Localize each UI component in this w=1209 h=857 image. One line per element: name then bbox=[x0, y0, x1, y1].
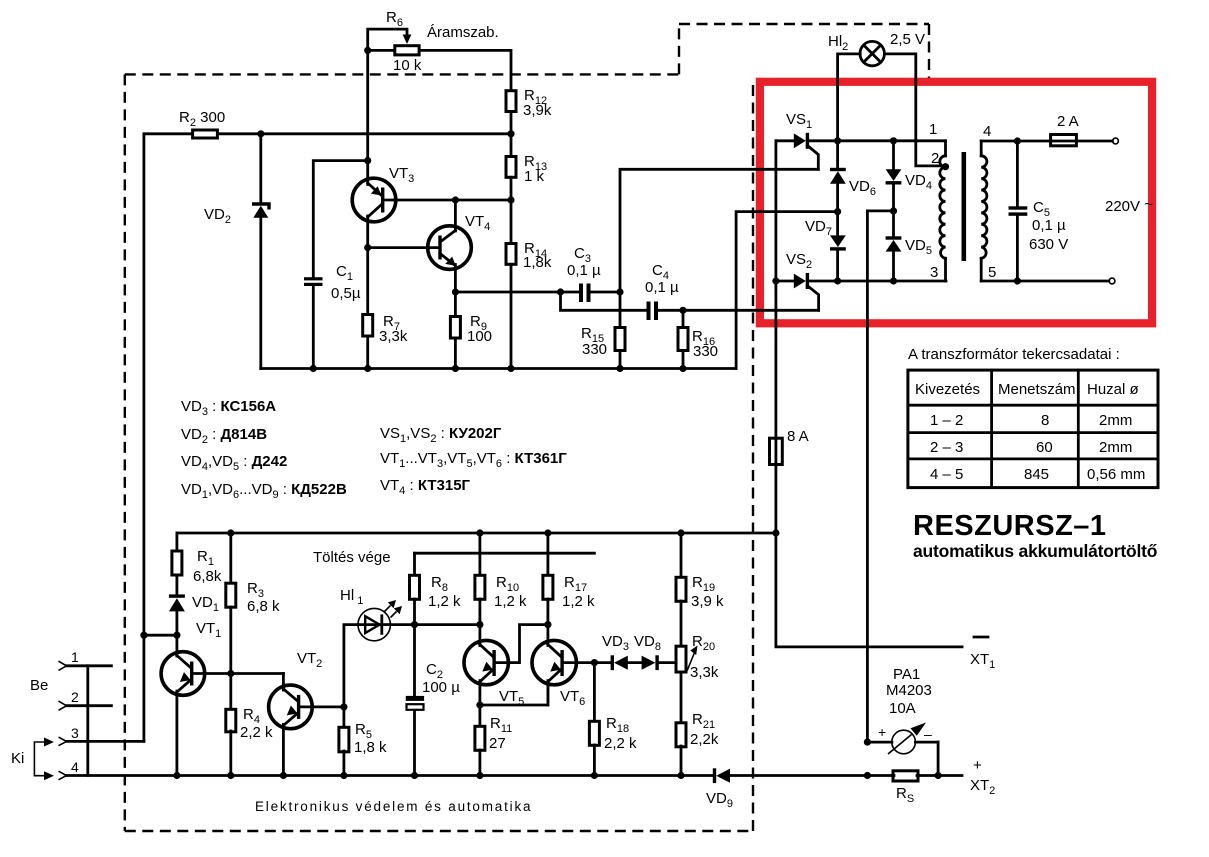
wire: R20 to R21 bbox=[680, 672, 683, 723]
wire: VD5 to pin3 line bbox=[892, 252, 895, 281]
wire: pin 1 stub bbox=[67, 664, 112, 667]
wire: R5 to rail bbox=[342, 751, 345, 776]
wire: R18 column bbox=[593, 663, 596, 721]
svg-text:2 A: 2 A bbox=[1057, 113, 1079, 130]
svg-text:automatikus akkumulátortöltő: automatikus akkumulátortöltő bbox=[913, 541, 1157, 561]
connector bus bar bbox=[86, 666, 89, 776]
svg-text:2,2 k: 2,2 k bbox=[604, 735, 637, 752]
wire: VD8 to R20 bbox=[659, 661, 676, 664]
transistor VT1 (PNP) bbox=[161, 620, 221, 776]
node: VT2 emitter on rail bbox=[280, 772, 287, 779]
transformer core bbox=[962, 152, 967, 261]
node: left drop line tap bbox=[140, 632, 147, 639]
wire: R17 column from rail bbox=[547, 533, 550, 575]
wire: VD2 to bottom rail left corner bbox=[259, 218, 262, 369]
wire: VD6 to VD7 bbox=[836, 184, 839, 236]
resistor R15 330 bbox=[581, 325, 625, 358]
transistor VT6 (PNP) bbox=[532, 625, 585, 708]
transistor VT2 (PNP) bbox=[269, 650, 323, 776]
svg-text:Elektronikus védelem és aut: Elektronikus védelem és automatika bbox=[255, 799, 532, 814]
wire: R5 column bbox=[342, 707, 345, 727]
svg-text:PA1: PA1 bbox=[893, 666, 920, 683]
connector: Be pin 2 chevron bbox=[59, 701, 67, 710]
wire: pin5 line to mains terminal bbox=[981, 280, 1109, 283]
resistor R1 6,8k bbox=[172, 548, 222, 585]
wire: VS2 anode lead bbox=[776, 280, 794, 283]
arrowhead of R6 wiper bbox=[403, 35, 412, 45]
wire: R10 to VT5 collector node bbox=[478, 599, 481, 625]
node: C3 left junction bbox=[557, 288, 564, 295]
svg-text:60: 60 bbox=[1036, 439, 1053, 456]
diode VD5 bbox=[886, 236, 932, 257]
resistor R19 3,9k bbox=[676, 574, 724, 610]
resistor R14 1,8k bbox=[506, 240, 552, 271]
node: junction at R6 left bbox=[364, 47, 371, 54]
wire: R17 to VT6 collector node bbox=[547, 599, 550, 625]
svg-text:1,8 k: 1,8 k bbox=[354, 739, 387, 756]
svg-text:0,1 µ: 0,1 µ bbox=[645, 279, 679, 296]
wire: C2 column bbox=[413, 625, 416, 696]
lamp HL2 2,5V bbox=[828, 31, 925, 66]
capacitor C5 0,1u 630V bbox=[1009, 141, 1069, 281]
wire: fuse to mains terminal bbox=[1076, 140, 1112, 143]
svg-text:1,8k: 1,8k bbox=[523, 254, 552, 271]
wire: R6 right lead to R12 column bbox=[421, 50, 511, 89]
svg-text:Huzal ø: Huzal ø bbox=[1087, 381, 1139, 398]
svg-text:A transzformátor tekercsadatai: A transzformátor tekercsadatai : bbox=[908, 346, 1120, 363]
transistor VT4 (NPN) bbox=[428, 200, 491, 292]
diode VD8 bbox=[634, 633, 661, 670]
wire: VT3 base lead to R13/R14 junction bbox=[384, 199, 512, 202]
component list: left column bbox=[181, 398, 347, 501]
wire: jog from C3 node down to C4 line bbox=[561, 292, 647, 310]
wire: R19 column from rail bbox=[680, 533, 683, 577]
connector: Be pin 1 chevron bbox=[59, 661, 67, 670]
bottom rail of control section bbox=[66, 774, 713, 777]
node: VD7 bottom bbox=[834, 277, 841, 284]
potentiometer R6 10k bbox=[395, 46, 419, 55]
capacitor C4 0,1u bbox=[645, 262, 679, 320]
node: meter left tap bbox=[864, 739, 871, 746]
transformer T1 secondary winding bbox=[981, 141, 987, 281]
svg-text:+: + bbox=[878, 724, 886, 740]
diode VD1 bbox=[169, 594, 219, 614]
svg-text:220V ~: 220V ~ bbox=[1105, 196, 1153, 215]
svg-text:M4203: M4203 bbox=[886, 682, 932, 699]
svg-text:8: 8 bbox=[1041, 412, 1049, 429]
svg-text:6,8 k: 6,8 k bbox=[247, 598, 280, 615]
resistor R16 330 bbox=[678, 328, 718, 361]
node: R17 top bbox=[544, 529, 551, 536]
wire: R6 top loop from left junction to wiper arrow bbox=[368, 29, 407, 50]
capacitor C1 0,5u bbox=[304, 263, 361, 302]
wire: rail corner up to VD6/VD7 midpoint bbox=[736, 212, 838, 369]
wire: R10 column from rail bbox=[478, 533, 481, 575]
resistor R5 1,8k bbox=[339, 721, 387, 756]
node: battery wire meets rail bbox=[864, 772, 871, 779]
node: R16 top bbox=[679, 307, 686, 314]
capacitor C3 0,1u bbox=[567, 245, 601, 302]
LED HL1 bbox=[340, 587, 402, 641]
node: R10 top bbox=[476, 529, 483, 536]
node: R9 on rail bbox=[452, 365, 459, 372]
wire: R4 to rail bbox=[229, 731, 232, 776]
node: R4 on rail bbox=[227, 772, 234, 779]
node: VD4/VD5 midpoint bbox=[890, 207, 897, 214]
svg-text:4: 4 bbox=[71, 759, 79, 775]
resistor R12 3,9k bbox=[506, 87, 552, 119]
resistor R9 100 bbox=[450, 313, 492, 345]
node: meter right tap on rail bbox=[935, 772, 942, 779]
svg-text:2 – 3: 2 – 3 bbox=[930, 439, 963, 456]
svg-text:0,1 µ: 0,1 µ bbox=[1032, 217, 1066, 234]
resistor R8 1,2k bbox=[410, 574, 462, 610]
resistor R2 300 bbox=[179, 109, 225, 138]
wire: VD1 to VT1 collector node bbox=[175, 611, 178, 656]
wire: VT4 base lead bbox=[368, 246, 439, 249]
transistor VT3 (PNP) bbox=[352, 165, 414, 248]
svg-text:Ki: Ki bbox=[11, 750, 24, 767]
node: R17/VT6-collector/VT5-base junction bbox=[544, 621, 551, 628]
diode VD7 bbox=[805, 218, 846, 251]
wire: R6 left lead bbox=[368, 49, 394, 52]
wire: R21 to rail bbox=[680, 746, 683, 776]
svg-text:6,8k: 6,8k bbox=[193, 568, 222, 585]
node: R18 on rail bbox=[591, 772, 598, 779]
svg-text:Áramszab.: Áramszab. bbox=[427, 24, 499, 41]
node: R11 on rail bbox=[476, 772, 483, 779]
wire: VD7 to VS2 cathode line bbox=[836, 251, 839, 281]
node: R3/R4/VT1 base junction bbox=[227, 670, 234, 677]
wire: C3 right to its node bbox=[591, 291, 621, 294]
node: C1 on rail bbox=[310, 365, 317, 372]
wire: VT5 base cross-coupling to R17 bottom bbox=[495, 625, 548, 663]
svg-text:4: 4 bbox=[983, 123, 991, 140]
wire: VT3 collector down to R7 bbox=[366, 248, 369, 314]
node: VD2 tap on R2 line bbox=[257, 130, 264, 137]
fuse 2A bbox=[1051, 113, 1079, 146]
fuse 8A bbox=[770, 428, 809, 465]
svg-text:2: 2 bbox=[71, 689, 79, 705]
svg-text:0,56 mm: 0,56 mm bbox=[1087, 466, 1145, 483]
wire: R12 to R13 bbox=[510, 112, 513, 157]
node: VT3 collector / VT4 base bbox=[364, 244, 371, 251]
wire: rail from VD9 to XT2 bbox=[730, 774, 894, 777]
wire: R9 column bbox=[454, 292, 457, 316]
wire: thyristor anode column VS1/VS2 down to 8A fuse bbox=[775, 141, 778, 439]
wire: R1 column from rail bbox=[175, 533, 178, 551]
diode VD4 bbox=[886, 169, 932, 192]
node: R14 on rail bbox=[507, 365, 514, 372]
svg-text:3,3k: 3,3k bbox=[690, 664, 719, 681]
node: C1 tap bbox=[364, 157, 371, 164]
wire: R8 to LED node bbox=[413, 599, 416, 625]
svg-text:100: 100 bbox=[467, 328, 492, 345]
resistor R13 1k bbox=[506, 153, 547, 185]
wire: pin 2 stub bbox=[67, 704, 112, 707]
node: VT2 base / R5 / HL1 junction bbox=[340, 703, 347, 710]
wire: 8A fuse down to XT1 bbox=[776, 439, 962, 647]
wire: HL1 riser from R5 node bbox=[344, 625, 358, 707]
node: VS2 anode junction bbox=[772, 277, 779, 284]
node: VT4 emitter / R9 / C3 line bbox=[452, 288, 459, 295]
svg-text:1: 1 bbox=[929, 121, 937, 138]
wire: R11 to rail bbox=[478, 750, 481, 776]
node: VT4 collector on VT3 base line bbox=[452, 196, 459, 203]
wire: pin 3 line to left drop bbox=[67, 740, 144, 743]
Ki bracket with arrows to pins 3 and 4 bbox=[34, 738, 54, 781]
dashed border: main outer box of power/control section bbox=[125, 24, 929, 831]
svg-text:2: 2 bbox=[931, 150, 939, 167]
connector: pin 4 chevron bbox=[59, 771, 67, 780]
node: R3 top bbox=[227, 529, 234, 536]
transistor VT5 (PNP) bbox=[464, 625, 524, 708]
svg-text:–: – bbox=[924, 726, 932, 742]
node: C5 bottom bbox=[1014, 277, 1021, 284]
node: R10/VT5 collector junction bbox=[476, 621, 483, 628]
top rail of control section bbox=[177, 532, 776, 535]
wire: C1 top jog bbox=[313, 161, 367, 277]
node: top rail of control section meets battery minus wire bbox=[772, 529, 779, 536]
node: C5 top bbox=[1014, 137, 1021, 144]
wire: left lead of R2 and long left drop bbox=[144, 134, 191, 742]
svg-text:3,3k: 3,3k bbox=[379, 328, 408, 345]
wire: R2 right to R12/R13 junction bbox=[217, 132, 511, 135]
svg-text:4 – 5: 4 – 5 bbox=[930, 466, 963, 483]
svg-text:27: 27 bbox=[489, 735, 506, 752]
node: VT5/VT6 emitter junction bbox=[476, 701, 483, 708]
svg-text:1 k: 1 k bbox=[524, 168, 545, 185]
ammeter PA1 bbox=[867, 666, 938, 776]
svg-text:0,1 µ: 0,1 µ bbox=[567, 262, 601, 279]
wire: R7 to rail bbox=[366, 336, 369, 369]
thyristor VS2 bbox=[786, 251, 819, 310]
wire: vertical through VT3 emitter from R6 junction bbox=[366, 50, 369, 184]
node: C2 on rail bbox=[411, 772, 418, 779]
node: R5 on rail bbox=[340, 772, 347, 779]
svg-text:1,2 k: 1,2 k bbox=[562, 593, 595, 610]
node: VD6 top bbox=[834, 137, 841, 144]
wire: C1 bottom to rail bbox=[312, 286, 315, 369]
wire: VD3 to VD8 bbox=[628, 661, 642, 664]
wire: HL2 right leg to transformer pin 2 bbox=[884, 54, 945, 166]
svg-text:0,5µ: 0,5µ bbox=[331, 285, 361, 302]
svg-text:8 A: 8 A bbox=[787, 428, 809, 445]
wire: VS1 anode lead bbox=[776, 139, 794, 142]
wire: R9 to rail bbox=[454, 338, 457, 369]
bottom rail of upper section bbox=[261, 367, 736, 370]
node: VT6 base / R18 / VD3 junction bbox=[591, 659, 598, 666]
svg-text:10 k: 10 k bbox=[393, 57, 422, 74]
resistor R18 2,2k bbox=[589, 715, 637, 752]
node: C3/R15/gate-wire junction bbox=[616, 288, 623, 295]
svg-text:2,5 V: 2,5 V bbox=[890, 31, 925, 48]
svg-text:1,2 k: 1,2 k bbox=[494, 593, 527, 610]
node: R8/C2 junction bbox=[411, 621, 418, 628]
node: R21 on rail bbox=[677, 772, 684, 779]
svg-text:330: 330 bbox=[582, 341, 607, 358]
wire: VD6 column upper bbox=[836, 141, 839, 168]
wire: R1 to VD1 bbox=[175, 575, 178, 595]
svg-text:Menetszám: Menetszám bbox=[998, 381, 1076, 398]
svg-text:Be: Be bbox=[30, 677, 48, 694]
svg-text:1 – 2: 1 – 2 bbox=[930, 412, 963, 429]
node: R16 on rail bbox=[679, 365, 686, 372]
resistor R17 1,2k bbox=[543, 574, 595, 610]
svg-text:845: 845 bbox=[1024, 466, 1049, 483]
wire: VD2 anode/cathode column bbox=[259, 134, 262, 203]
node: VT1 emitter on rail bbox=[173, 772, 180, 779]
resistor R10 1,2k bbox=[475, 574, 527, 610]
wire: R4 column bbox=[229, 674, 232, 710]
svg-text:2,2k: 2,2k bbox=[690, 731, 719, 748]
wire: VT6 base lead bbox=[563, 661, 611, 664]
connector: pin 3 chevron bbox=[59, 737, 67, 746]
wire: VT2 base lead to R5 node bbox=[299, 706, 344, 709]
svg-text:+: + bbox=[973, 757, 982, 774]
transformer T1 primary winding bbox=[940, 141, 946, 281]
node: VD6/VD7 midpoint bbox=[834, 208, 841, 215]
svg-text:2,2 k: 2,2 k bbox=[240, 724, 273, 741]
wire: VS1 gate wire up and across bbox=[620, 169, 818, 292]
label XT1 minus bbox=[974, 636, 988, 639]
diode VD3 bbox=[602, 633, 629, 670]
resistor R7 3,3k bbox=[363, 313, 408, 345]
wire: HL2 left leg bbox=[838, 54, 861, 141]
wire: C4 right to VS2 gate bbox=[658, 309, 819, 312]
svg-text:1,2 k: 1,2 k bbox=[428, 593, 461, 610]
wire: HL1 to R8/C2 node and VT5 collector node bbox=[390, 623, 480, 626]
red highlight box around transformer section bbox=[760, 82, 1152, 323]
wire: R14 down to bottom rail bbox=[510, 264, 513, 368]
svg-text:3: 3 bbox=[71, 725, 79, 741]
wire: R8 column bbox=[413, 553, 416, 575]
node: VD1/VT1/left-drop junction bbox=[173, 632, 180, 639]
node: R2 line meets R12/R13 bbox=[507, 130, 514, 137]
wire: R15 to rail bbox=[619, 351, 622, 369]
wire: R19 to R20 bbox=[680, 601, 683, 646]
shunt resistor Rs bbox=[893, 771, 918, 805]
wire: R13 to R14 bbox=[510, 177, 513, 243]
wire: R15 column bbox=[619, 292, 622, 327]
terminal: mains bottom bbox=[1109, 278, 1115, 284]
wire: VT1 base lead to R3/R4 node bbox=[192, 672, 283, 675]
diode VD9 on rail bbox=[706, 768, 733, 810]
wire: VD4 column upper bbox=[892, 141, 895, 170]
svg-text:330: 330 bbox=[693, 343, 718, 360]
node: VD4 top bbox=[890, 137, 897, 144]
wire: R3 column bbox=[229, 533, 232, 583]
diode VD6 bbox=[830, 168, 876, 198]
wire: VT4 emitter line to C3 bbox=[455, 291, 579, 294]
svg-text:3,9 k: 3,9 k bbox=[691, 593, 724, 610]
wire: R8 top link over to VT6 base column bbox=[415, 552, 595, 555]
component list: right column bbox=[380, 425, 567, 497]
wire: R16 to rail bbox=[682, 351, 685, 369]
node: R19 top bbox=[677, 529, 684, 536]
table: transformer winding data bbox=[908, 346, 1158, 488]
terminal: mains top bbox=[1113, 138, 1119, 144]
svg-text:3,9k: 3,9k bbox=[523, 102, 552, 119]
resistor R4 2,2k bbox=[226, 706, 273, 741]
resistor R11 27 bbox=[475, 715, 512, 752]
wire: R11 column bbox=[478, 705, 481, 726]
svg-text:3: 3 bbox=[930, 264, 938, 281]
svg-text:100 µ: 100 µ bbox=[422, 679, 460, 696]
wire: R18 to rail bbox=[593, 745, 596, 776]
node: R15 on rail bbox=[616, 365, 623, 372]
wire: jog from left drop to VT1 collector bbox=[144, 634, 177, 637]
thyristor VS1 bbox=[786, 111, 818, 169]
node: VD5 bottom bbox=[890, 277, 897, 284]
wire: pin4 line to fuse bbox=[981, 140, 1051, 143]
wire: VD4 to VD5 bbox=[892, 185, 895, 237]
svg-text:5: 5 bbox=[988, 264, 996, 281]
wire: R3 to base node bbox=[229, 607, 232, 674]
zener diode VD2 bbox=[204, 204, 269, 226]
wire: R16 column bbox=[682, 310, 685, 327]
node: R7 on rail bbox=[364, 365, 371, 372]
node: pin2 tap on primary winding bbox=[942, 163, 949, 170]
svg-text:Töltés vége: Töltés vége bbox=[313, 549, 391, 566]
svg-text:1: 1 bbox=[71, 649, 79, 665]
svg-text:Kivezetés: Kivezetés bbox=[915, 381, 980, 398]
svg-text:2mm: 2mm bbox=[1099, 412, 1132, 429]
wire: VS1 cathode to transformer pin 1 bbox=[807, 139, 945, 142]
resistor R21 2,2k bbox=[676, 711, 719, 748]
wire: stub from VD4/VD5 midpoint to long battery wire bbox=[867, 211, 893, 742]
wire: emitter link VT6 to VT5 bbox=[480, 685, 548, 705]
resistor R3 6,8k bbox=[226, 580, 280, 615]
svg-text:RESZURSZ–1: RESZURSZ–1 bbox=[913, 510, 1107, 542]
svg-text:10A: 10A bbox=[889, 700, 916, 717]
svg-text:2mm: 2mm bbox=[1099, 439, 1132, 456]
svg-text:630 V: 630 V bbox=[1029, 236, 1068, 253]
wire: VT2 collector riser bbox=[282, 674, 285, 691]
wire: VS2 cathode to transformer pin 3 bbox=[807, 280, 946, 283]
node: VT3 base line meets R13/R14 bbox=[507, 196, 514, 203]
potentiometer R20 3,3k bbox=[676, 633, 719, 681]
capacitor C2 100u (electrolytic) bbox=[406, 661, 460, 776]
